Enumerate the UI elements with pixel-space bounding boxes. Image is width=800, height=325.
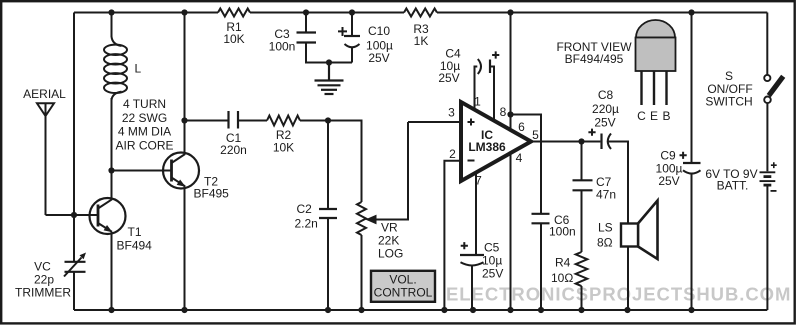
- label C6 100n: [549, 213, 576, 239]
- svg-text:C5: C5: [484, 241, 500, 255]
- wire: bottom ground bus: [74, 309, 767, 311]
- wire: C8 to speaker: [608, 142, 628, 224]
- wire: C5 to ground bus: [471, 266, 473, 310]
- capacitor C6: [532, 214, 550, 224]
- wire: T1 collector from node: [111, 171, 113, 200]
- junction node: C9 / top bus: [688, 9, 694, 15]
- potentiometer VR 22K LOG: [357, 202, 366, 235]
- capacitor C2: [319, 209, 337, 218]
- svg-text:25V: 25V: [658, 174, 679, 188]
- wire: C1 to R2: [239, 120, 267, 122]
- svg-text:10Ω: 10Ω: [551, 271, 573, 285]
- svg-text:LOG: LOG: [378, 247, 403, 261]
- wire: C3 bottom to ground node: [306, 43, 352, 63]
- label R1 10K: [223, 20, 244, 46]
- svg-text:220µ: 220µ: [592, 102, 619, 116]
- wire: C9 rail from top bus: [691, 13, 693, 163]
- junction node: C10 / top bus: [349, 9, 355, 15]
- junction node: speaker / ground bus: [624, 307, 630, 313]
- wire: pin 1 to C4: [475, 67, 478, 110]
- svg-text:25V: 25V: [438, 71, 459, 85]
- wire: switch rail from top bus: [766, 13, 768, 75]
- svg-text:CONTROL: CONTROL: [374, 286, 433, 300]
- svg-text:5: 5: [532, 128, 539, 142]
- transistor T2 BF495: [163, 153, 199, 189]
- svg-text:LS: LS: [598, 221, 613, 235]
- label C1 220n: [220, 131, 247, 157]
- label C4 10u 25V: [438, 47, 461, 86]
- junction node: pin 8 supply: [507, 111, 513, 117]
- junction node: C6 / ground bus: [538, 307, 544, 313]
- resistor R1: [218, 9, 250, 17]
- svg-text:C2: C2: [297, 202, 313, 216]
- svg-text:BF494/495: BF494/495: [565, 52, 624, 66]
- plus sign C10: [338, 27, 347, 36]
- label C8 220u 25V: [592, 88, 619, 130]
- svg-text:22 SWG: 22 SWG: [122, 111, 167, 125]
- label T1 BF494: [117, 225, 153, 253]
- plus sign C4: [492, 51, 499, 58]
- label C5 10u 25V: [482, 241, 503, 281]
- svg-text:25V: 25V: [482, 267, 503, 281]
- svg-text:TRIMMER: TRIMMER: [15, 286, 71, 300]
- junction node: T2 rail / top bus: [181, 9, 187, 15]
- label S ON/OFF SWITCH: [705, 69, 752, 109]
- wire: aerial to T1 base: [46, 214, 98, 216]
- svg-text:220n: 220n: [220, 143, 247, 157]
- resistor R4: [576, 252, 588, 286]
- wire: left rail lower: [73, 272, 75, 310]
- wire: C10 bottom to ground node: [351, 48, 353, 63]
- label L: [135, 62, 142, 76]
- wire: T2 collector node to C1: [185, 120, 228, 122]
- svg-text:4 MM DIA: 4 MM DIA: [118, 125, 171, 139]
- wire: switch to battery: [766, 103, 768, 171]
- svg-text:BF494: BF494: [117, 239, 153, 253]
- junction node: C3 / top bus: [303, 9, 309, 15]
- label C10 100u 25V: [366, 24, 393, 65]
- junction node: R2 / C2: [325, 117, 331, 123]
- svg-text:VC: VC: [34, 260, 51, 274]
- wire: T2 collector rail from top bus: [184, 13, 186, 155]
- junction node: supply drop / top bus: [507, 9, 513, 15]
- label T2 BF495: [194, 175, 230, 201]
- wire: pin 4 to ground bus: [510, 153, 512, 310]
- svg-text:T1: T1: [128, 225, 142, 239]
- label AERIAL: [23, 87, 66, 101]
- wire: pin 2 to ground bus: [444, 161, 460, 310]
- svg-text:1K: 1K: [414, 34, 429, 48]
- junction node: C5 / ground bus: [470, 307, 476, 313]
- minus input mark: [468, 160, 475, 162]
- svg-text:VR: VR: [381, 221, 398, 235]
- svg-text:8: 8: [500, 105, 507, 119]
- junction node: C2 / ground bus: [325, 307, 331, 313]
- wire: T1 collector node to T2 base: [112, 170, 171, 172]
- junction node: aerial / trimmer rail: [71, 212, 77, 218]
- wire: pin 3 input: [408, 121, 460, 123]
- trimmer capacitor VC: [64, 253, 86, 277]
- svg-text:E: E: [650, 109, 658, 123]
- svg-text:10K: 10K: [223, 32, 244, 46]
- label coil note: 4 TURN 22 SWG 4 MM DIA AIR CORE: [115, 97, 173, 152]
- capacitor C9 polarized: [683, 163, 701, 174]
- wire: C3 rail from top bus: [305, 13, 307, 33]
- junction node: output / C7: [578, 138, 584, 144]
- junction node: ground symbol tee: [326, 59, 332, 65]
- plus input mark: [468, 119, 475, 126]
- svg-text:100n: 100n: [269, 40, 296, 54]
- junction node: T1 collector / T2 base: [108, 167, 114, 173]
- battery 6V-9V: [760, 172, 776, 185]
- label R2 10K: [273, 128, 294, 155]
- svg-text:C9: C9: [660, 149, 676, 163]
- svg-text:BATT.: BATT.: [717, 179, 749, 193]
- wire: pin 6 supply bend to C6: [511, 115, 542, 214]
- label C2 2.2n: [295, 202, 318, 231]
- svg-text:SWITCH: SWITCH: [705, 95, 752, 109]
- junction node: R4 / ground bus: [578, 307, 584, 313]
- wire: pin 7 to C5: [475, 172, 477, 254]
- wire: C9 to ground bus: [691, 174, 693, 310]
- junction node: T1 emitter / ground bus: [108, 307, 114, 313]
- label LS 8ohm: [597, 221, 613, 250]
- svg-text:100n: 100n: [549, 225, 576, 239]
- label VC 22p TRIMMER: [15, 260, 71, 300]
- svg-text:2: 2: [449, 147, 456, 161]
- battery minus mark: [771, 190, 777, 192]
- label C E B pins: [637, 109, 670, 123]
- battery plus mark: [771, 162, 777, 168]
- svg-text:C10: C10: [368, 24, 390, 38]
- resistor R3: [404, 9, 437, 17]
- wire: C2 rail from node: [327, 121, 329, 210]
- junction node: pin 4 / ground bus: [507, 307, 513, 313]
- svg-text:47n: 47n: [596, 187, 616, 201]
- aerial antenna symbol: [37, 103, 54, 215]
- svg-text:4 TURN: 4 TURN: [123, 97, 166, 111]
- svg-text:22K: 22K: [378, 234, 399, 248]
- junction node: T2 emitter / ground bus: [181, 307, 187, 313]
- wire: R4 to ground bus: [581, 286, 583, 310]
- svg-text:25V: 25V: [368, 51, 389, 65]
- plus sign C9: [680, 152, 687, 159]
- capacitor C8 polarized: [602, 134, 612, 150]
- junction node: T2 collector / C1: [181, 117, 187, 123]
- loudspeaker LS: [621, 201, 658, 311]
- capacitor C1: [229, 111, 239, 129]
- switch S ON/OFF: [764, 75, 783, 103]
- wire: pin 5 output to C8: [531, 141, 600, 143]
- svg-text:22p: 22p: [34, 273, 54, 287]
- wire: C7 branch from output node: [581, 142, 583, 180]
- VR wiper arrow and wire to pin 3: [365, 122, 408, 224]
- wire: T2 emitter to ground bus: [184, 186, 186, 310]
- svg-text:L: L: [135, 62, 142, 76]
- capacitor C10 polarized: [344, 36, 360, 47]
- svg-text:2.2n: 2.2n: [295, 217, 318, 231]
- capacitor C5 polarized: [460, 255, 484, 265]
- svg-text:25V: 25V: [594, 116, 615, 130]
- wire: C7 to R4: [581, 191, 583, 252]
- ground symbol: [315, 63, 344, 95]
- svg-text:10K: 10K: [273, 141, 294, 155]
- transistor T1 BF494: [90, 198, 126, 234]
- junction node: VR / ground bus: [358, 307, 364, 313]
- label C7 47n: [596, 175, 616, 202]
- pin number labels 1 8 3 2 6 5 4 7: [448, 95, 539, 188]
- resistor R2: [267, 116, 300, 126]
- capacitor C7: [573, 180, 593, 190]
- VOL. CONTROL box: [371, 271, 435, 302]
- wire: pin8 node stub to triangle: [510, 115, 512, 131]
- op-amp U1 LM386 triangle: [461, 102, 531, 181]
- svg-text:R4: R4: [555, 255, 571, 269]
- TO-92 package front view: [636, 20, 676, 105]
- wire: top bus right segment: [437, 12, 767, 14]
- plus sign C8: [588, 129, 595, 136]
- wire: supply drop from top bus to pin8 node: [510, 13, 512, 115]
- plus sign C5: [461, 242, 468, 249]
- svg-text:6: 6: [518, 120, 525, 134]
- svg-text:VOL.: VOL.: [389, 273, 416, 287]
- wire: VR bottom to ground bus: [361, 235, 363, 310]
- wire: T1 emitter to ground bus: [111, 232, 113, 310]
- label C9 100u 25V: [656, 149, 683, 189]
- svg-text:8Ω: 8Ω: [597, 236, 613, 250]
- inductor L coil: [104, 13, 127, 171]
- capacitor C3: [297, 33, 317, 43]
- label FRONT VIEW BF494/495: [556, 40, 632, 66]
- svg-text:AIR CORE: AIR CORE: [115, 138, 173, 152]
- label R4 10ohm: [551, 255, 573, 285]
- wire: C10 rail from top bus: [351, 13, 353, 37]
- svg-text:BF495: BF495: [194, 187, 230, 201]
- wire: C4 to pin 8: [491, 67, 495, 120]
- wire: left rail upper (tank rail): [73, 13, 75, 262]
- junction node: C9 / ground bus: [688, 307, 694, 313]
- wire: battery to ground bus: [766, 186, 768, 310]
- wire: top bus middle segment: [250, 12, 404, 14]
- wire: C2 to ground bus: [327, 218, 329, 310]
- label IC LM386: [468, 128, 506, 154]
- capacitor C4 polarized: [478, 59, 490, 74]
- wire: R2 to C2 node to VR top: [300, 121, 362, 203]
- label R3 1K: [413, 22, 429, 48]
- svg-text:10µ: 10µ: [482, 254, 502, 268]
- wire: C6 to ground bus: [540, 223, 542, 310]
- label 6V TO 9V BATT.: [705, 167, 757, 193]
- junction node: L / top bus: [108, 9, 114, 15]
- label C3 100n: [269, 27, 296, 54]
- svg-text:LM386: LM386: [468, 140, 506, 154]
- svg-text:3: 3: [448, 106, 455, 120]
- svg-text:AERIAL: AERIAL: [23, 87, 66, 101]
- svg-text:C8: C8: [598, 88, 614, 102]
- svg-text:B: B: [662, 109, 670, 123]
- junction node: pin 2 / ground bus: [441, 307, 447, 313]
- svg-text:C: C: [637, 109, 646, 123]
- label VR 22K LOG: [378, 221, 403, 261]
- svg-text:4: 4: [516, 151, 523, 165]
- svg-text:ELECTRONICSPROJECTSHUB.COM: ELECTRONICSPROJECTSHUB.COM: [446, 284, 791, 305]
- wire: top supply bus left segment: [74, 12, 218, 14]
